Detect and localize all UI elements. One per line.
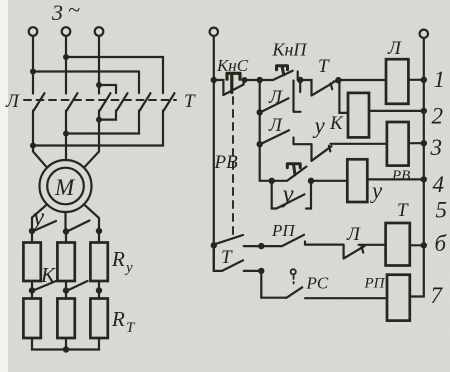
node T out xyxy=(335,77,341,83)
motor letter M xyxy=(54,175,76,200)
switch T pole2 xyxy=(214,245,261,271)
node B1 xyxy=(258,243,264,249)
contact U2 xyxy=(69,221,90,231)
svg-text:РП: РП xyxy=(364,276,386,292)
coil RV xyxy=(387,122,409,166)
label U (acceleration contacts) xyxy=(30,204,45,231)
wire phase B down xyxy=(65,36,67,94)
wire branch down rung4 xyxy=(260,144,272,181)
contact U bypass xyxy=(272,181,311,209)
node rail rung1 right xyxy=(421,77,427,83)
label L self-hold xyxy=(268,87,283,108)
wire RU2 to node K2 xyxy=(65,281,67,291)
svg-text:РВ: РВ xyxy=(214,152,239,173)
wire col3 node-RU3 xyxy=(98,231,100,243)
node phase B crossover xyxy=(63,54,69,60)
wire KnS-KnP xyxy=(245,79,260,81)
label L NC xyxy=(346,224,361,245)
coil T xyxy=(386,223,410,266)
label RS xyxy=(306,274,329,293)
wire phase A to T2 top xyxy=(33,72,139,94)
svg-text:у: у xyxy=(313,113,326,138)
label RU value xyxy=(111,247,133,276)
label L (contactor group) xyxy=(5,91,20,112)
resistor RT2 xyxy=(57,299,74,339)
label KnP xyxy=(272,40,308,60)
svg-text:РВ: РВ xyxy=(391,168,410,184)
label U NC xyxy=(313,113,326,138)
svg-text:Л: Л xyxy=(346,224,361,245)
label RV contact xyxy=(214,152,239,173)
contact U1 xyxy=(35,221,57,231)
node KnS out xyxy=(242,77,248,83)
wire col1 node-RU1 xyxy=(31,231,33,243)
label RP contact xyxy=(271,221,296,240)
node phase A crossover xyxy=(30,69,36,75)
switch T pole1 xyxy=(215,235,262,246)
node rail rung3 xyxy=(421,140,427,146)
label L coil xyxy=(387,38,402,59)
interlock dashed link xyxy=(24,99,176,101)
label 7 xyxy=(431,283,444,308)
label 6 xyxy=(435,231,448,256)
contact L2 xyxy=(67,93,78,110)
label K coil xyxy=(329,113,344,134)
label 3~ (three-phase supply) xyxy=(51,0,80,25)
svg-text:Т: Т xyxy=(318,56,330,77)
terminal control right xyxy=(420,30,428,38)
node T1-L3 xyxy=(96,117,102,123)
wire phase A down xyxy=(32,36,34,94)
label T coil xyxy=(397,200,409,221)
wire branch down rung3 xyxy=(259,112,261,144)
svg-text:R: R xyxy=(111,247,125,271)
wire to coil L xyxy=(338,79,386,81)
svg-text:Т: Т xyxy=(184,91,196,112)
wire K2-RT2 xyxy=(65,291,67,299)
wire T2 out to node L2 xyxy=(66,111,139,134)
contact L rung3 xyxy=(262,130,289,143)
svg-text:Л: Л xyxy=(268,115,283,136)
svg-text:РП: РП xyxy=(271,221,296,240)
wire L3 out xyxy=(84,111,99,168)
wire rung4 to coil U xyxy=(311,180,347,182)
wire coil T to rail xyxy=(410,244,424,246)
contact RP rung6 xyxy=(261,235,343,246)
contact K2 xyxy=(69,281,88,290)
contact L3 xyxy=(100,93,111,110)
label T interlock xyxy=(318,56,330,77)
label T (contactor group) xyxy=(184,91,196,112)
resistor RT1 xyxy=(23,299,40,339)
switch RS stem xyxy=(293,275,295,284)
switch RS pivot circle xyxy=(291,269,296,274)
contact RV timed xyxy=(272,167,307,181)
node rail T switch xyxy=(211,242,217,248)
svg-text:Л: Л xyxy=(5,91,20,112)
label u bypass xyxy=(280,181,295,208)
node phase C crossover xyxy=(96,82,102,88)
svg-text:3: 3 xyxy=(430,135,443,160)
contact U NC rung3 xyxy=(312,144,387,161)
wire RU1 to node K1 xyxy=(31,281,33,291)
node U col1 xyxy=(29,228,35,234)
button KnP start xyxy=(260,71,298,80)
contact T3 xyxy=(164,93,175,110)
wire phase B to T3 top xyxy=(66,57,163,93)
wire phase C down xyxy=(98,36,100,94)
label u coil xyxy=(370,178,383,203)
label 2 xyxy=(432,104,444,129)
svg-text:Т: Т xyxy=(221,247,233,268)
wire RS to coil RP xyxy=(305,297,387,299)
wire branch down xyxy=(259,80,261,112)
wire star bus bottom xyxy=(32,338,99,350)
button KnS stop xyxy=(214,80,244,95)
node rail rung6 xyxy=(421,242,427,248)
wire phase C to T1 top xyxy=(99,85,116,93)
switch RS xyxy=(286,287,302,298)
node rail rung1 xyxy=(211,77,217,83)
label 1 xyxy=(434,67,446,92)
svg-text:5: 5 xyxy=(436,198,448,223)
coil L xyxy=(386,59,408,104)
svg-text:у: у xyxy=(280,181,295,208)
svg-text:2: 2 xyxy=(432,104,444,129)
wire B2 down rung7 xyxy=(261,271,286,298)
svg-text:3: 3 xyxy=(51,0,63,25)
coil U xyxy=(347,159,367,202)
label T switch xyxy=(221,247,233,268)
contact RV plunger xyxy=(287,164,300,175)
wire RU3 to node K3 xyxy=(98,281,100,291)
wire coil U to rail xyxy=(367,178,424,180)
svg-text:б: б xyxy=(435,231,448,256)
left rail xyxy=(213,36,215,271)
wire T3 out to node L1 xyxy=(33,111,163,146)
label RP coil xyxy=(364,276,386,292)
svg-text:4: 4 xyxy=(433,172,445,197)
svg-text:Л: Л xyxy=(387,38,402,59)
contact T NC rung1 xyxy=(300,80,338,96)
contact L1 xyxy=(34,93,45,110)
wire self-hold up lead xyxy=(294,81,301,112)
wire T1 out to node L3 xyxy=(99,111,116,120)
wire coil L to rail xyxy=(408,79,423,81)
wire K1-RT1 xyxy=(31,291,33,299)
node B2 xyxy=(258,268,264,274)
svg-text:К: К xyxy=(329,113,344,134)
label 3 xyxy=(430,135,443,160)
resistor RU1 xyxy=(23,243,40,282)
svg-text:М: М xyxy=(54,175,76,200)
contact K1 xyxy=(35,281,57,290)
label 4 xyxy=(433,172,445,197)
node C rung4 xyxy=(308,178,314,184)
label RV coil xyxy=(391,168,410,184)
node branch self-hold xyxy=(257,77,263,83)
label K (contacts) xyxy=(40,263,56,287)
wire rotor left xyxy=(32,204,47,231)
motor M outer circle xyxy=(40,160,92,212)
svg-text:~: ~ xyxy=(68,0,80,22)
contact L NC rung6 xyxy=(344,245,386,259)
svg-text:7: 7 xyxy=(431,283,444,308)
node KnP out xyxy=(297,77,303,83)
node U col3 xyxy=(96,228,102,234)
contact L self-hold xyxy=(262,98,289,111)
svg-text:у: у xyxy=(124,260,133,276)
wire rotor right xyxy=(84,204,99,231)
wire coil K feed xyxy=(338,80,348,113)
contact T1 xyxy=(117,93,128,110)
node T3-L1 xyxy=(30,143,36,149)
resistor RU3 xyxy=(90,243,107,282)
resistor RU2 xyxy=(57,243,74,282)
wire L2 out xyxy=(65,111,67,161)
node K col1 xyxy=(29,287,35,293)
terminal phase A xyxy=(29,27,38,36)
svg-text:1: 1 xyxy=(434,67,446,92)
terminal control left xyxy=(210,28,218,36)
label RT value xyxy=(111,307,136,336)
wire K3-RT3 xyxy=(98,291,100,299)
node rung3 xyxy=(257,141,263,147)
motor M inner circle xyxy=(47,168,84,205)
terminal phase C xyxy=(95,27,104,36)
node T2-L2 xyxy=(63,131,69,137)
terminal phase B xyxy=(62,27,71,36)
mechanical link dashed KnS-T xyxy=(232,97,234,236)
right rail xyxy=(410,38,424,297)
stub below node xyxy=(299,80,301,92)
label KnS xyxy=(216,56,249,75)
coil K xyxy=(348,93,369,137)
contact T2 xyxy=(140,93,151,110)
label L rung3 xyxy=(268,115,283,136)
node rail rung4 xyxy=(421,176,427,182)
node self-hold L xyxy=(257,109,263,115)
wire col2 node-RU2 xyxy=(65,232,67,243)
node U col2 xyxy=(63,228,69,234)
button KnS plunger xyxy=(227,73,240,92)
svg-text:РС: РС xyxy=(306,274,329,293)
node A rung4 xyxy=(269,178,275,184)
coil RP xyxy=(387,275,410,321)
node K col2 xyxy=(63,287,69,293)
svg-text:КнП: КнП xyxy=(272,40,308,60)
node K col3 xyxy=(96,287,102,293)
label 5 xyxy=(436,198,448,223)
wire coil K to rail xyxy=(369,110,424,112)
wire L1 out xyxy=(33,111,47,168)
wire rung3 lead xyxy=(294,138,312,145)
svg-text:R: R xyxy=(111,307,125,331)
wire rotor mid xyxy=(64,212,66,232)
svg-text:Т: Т xyxy=(397,200,409,221)
node star point xyxy=(63,346,69,352)
wire coil RV to rail xyxy=(409,142,424,144)
svg-text:у: у xyxy=(370,178,383,203)
node rail rung2 xyxy=(421,108,427,114)
button KnP plunger xyxy=(277,66,288,75)
resistor RT3 xyxy=(90,299,107,339)
